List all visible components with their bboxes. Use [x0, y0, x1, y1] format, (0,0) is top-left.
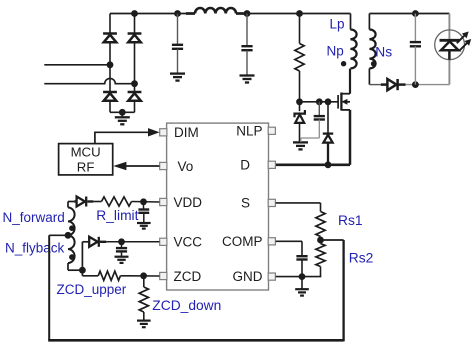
- wire GND pin to junction: [276, 276, 302, 278]
- node top rail junction at R1: [296, 10, 303, 17]
- svg-text:Rs2: Rs2: [349, 251, 374, 266]
- svg-text:ZCD: ZCD: [174, 269, 202, 284]
- wire ZCD_upper to ZCD pin: [120, 275, 159, 277]
- diode D4: [77, 197, 85, 207]
- svg-text:DIM: DIM: [174, 125, 199, 140]
- node Rs1/Rs2 junction: [317, 237, 324, 244]
- wire D6 to VCC pin: [106, 241, 159, 243]
- wire D4 to R_limit: [93, 201, 101, 203]
- node secondary bottom at C4: [412, 81, 419, 88]
- transistor Q1 nMOSFET: [337, 95, 339, 109]
- pin NLP: [268, 127, 275, 134]
- capacitor C6: [143, 202, 145, 210]
- node top rail junction at C1: [174, 10, 181, 17]
- node gate line at C3: [316, 98, 323, 105]
- zener diode DZ1: [299, 102, 301, 111]
- wire bottom rail: [48, 339, 343, 342]
- svg-text:N_flyback: N_flyback: [5, 241, 65, 256]
- svg-text:Np: Np: [327, 44, 344, 59]
- node D2 at D wire: [325, 161, 332, 168]
- wire COMP to C5: [276, 240, 302, 242]
- diode bridge bottom-right: [128, 91, 142, 94]
- node VCC line at C7: [118, 238, 125, 245]
- resistor R_limit: [102, 197, 132, 206]
- wire junction up to D6: [81, 242, 83, 270]
- ground C6: [137, 222, 151, 224]
- svg-text:N_forward: N_forward: [3, 210, 65, 225]
- svg-text:Vo: Vo: [178, 159, 194, 174]
- svg-text:COMP: COMP: [222, 234, 263, 249]
- ground ZCD_down: [137, 320, 151, 322]
- wire top rectified rail: [110, 13, 186, 15]
- capacitor C4: [414, 14, 416, 42]
- svg-text:VDD: VDD: [174, 195, 203, 210]
- ground C1: [170, 72, 185, 74]
- resistor Rs2: [320, 240, 322, 244]
- pin VDD: [160, 198, 167, 205]
- svg-text:R_limit: R_limit: [96, 208, 138, 223]
- inductor L1: [195, 8, 236, 14]
- node gate line at R1/zener: [296, 98, 303, 105]
- wire Rs2 bottom to GND line: [302, 276, 321, 278]
- capacitor C7: [121, 242, 123, 248]
- ground C7: [115, 256, 129, 258]
- ground zener: [293, 141, 308, 143]
- wire AC input line 1: [44, 64, 110, 66]
- node primary polarity dot: [341, 61, 346, 66]
- resistor R1: [299, 14, 301, 44]
- svg-text:Rs1: Rs1: [338, 213, 363, 228]
- ground GND: [301, 277, 303, 289]
- svg-text:VCC: VCC: [174, 235, 203, 250]
- op-amp U1 controller IC body: [167, 123, 269, 290]
- ground C2: [240, 74, 255, 76]
- node top rail junction at C2: [244, 10, 251, 17]
- wire right bridge column: [134, 14, 136, 113]
- wire aux bottom to junction: [68, 269, 82, 271]
- diode D3: [369, 84, 380, 86]
- wire AC input line 2 with hop over left column: [44, 78, 134, 83]
- pin VCC: [160, 238, 167, 245]
- transformer aux winding N_forward/N_flyback: [67, 202, 69, 208]
- node GND junction: [299, 273, 306, 280]
- wire C3 bottom to zener ground: [301, 137, 320, 139]
- node N_forward polarity dot: [69, 225, 75, 231]
- pin DIM: [160, 129, 167, 136]
- node AC2-right column junction: [131, 80, 138, 87]
- node secondary polarity dot: [371, 61, 376, 66]
- wire center tap to left rail: [49, 234, 68, 236]
- svg-text:ZCD_down: ZCD_down: [152, 298, 221, 313]
- svg-text:D: D: [240, 158, 250, 173]
- pin D: [268, 161, 275, 168]
- wire gate line: [300, 101, 339, 103]
- diode D6: [89, 237, 97, 247]
- svg-text:RF: RF: [77, 160, 95, 175]
- resistor ZCD_upper: [98, 271, 120, 280]
- node gate line at D2: [325, 98, 332, 105]
- MCU RF box: [59, 144, 113, 175]
- transformer primary winding Lp/Np: [350, 14, 352, 30]
- diode bridge top-right: [128, 32, 142, 35]
- diode D2: [327, 102, 329, 133]
- wire secondary top rail: [369, 13, 449, 15]
- node bridge ground junction: [119, 109, 126, 116]
- capacitor C1: [177, 14, 179, 45]
- capacitor C2: [246, 14, 248, 47]
- pin ZCD: [160, 272, 167, 279]
- svg-text:MCU: MCU: [71, 145, 101, 160]
- svg-text:NLP: NLP: [236, 123, 262, 138]
- wire MCU to DIM with arrow: [95, 132, 149, 143]
- node top rail junction at right bridge column: [131, 10, 138, 17]
- svg-text:S: S: [241, 196, 250, 211]
- node VDD line at C6: [140, 198, 147, 205]
- wire junction to ZCD_upper: [81, 270, 83, 276]
- svg-text:Ns: Ns: [375, 44, 392, 59]
- diode bridge top-left: [103, 32, 117, 35]
- pin Vo: [160, 162, 167, 169]
- wire left rail: [48, 235, 50, 340]
- node ZCD junction: [140, 272, 147, 279]
- pin COMP: [268, 238, 275, 245]
- pin GND: [268, 273, 275, 280]
- svg-text:ZCD_upper: ZCD_upper: [57, 282, 127, 297]
- wire D pin to MOSFET source: [276, 164, 350, 167]
- resistor ZCD_down: [143, 276, 145, 287]
- node AC1-left column junction: [107, 61, 114, 68]
- ground bridge: [121, 112, 123, 117]
- node N_flyback polarity dot: [69, 254, 75, 260]
- wire S pin to Rs1: [276, 202, 321, 204]
- wire thick inductor stubs: [186, 12, 195, 15]
- capacitor C3: [318, 102, 320, 116]
- wire right sense rail: [342, 240, 344, 341]
- node aux bottom junction: [79, 267, 86, 274]
- resistor Rs1: [316, 212, 325, 237]
- node secondary rail at C4: [412, 10, 419, 17]
- capacitor C5: [296, 255, 307, 257]
- node aux winding center tap: [65, 232, 72, 239]
- wire left bridge column: [109, 14, 111, 113]
- pin S: [268, 199, 275, 206]
- wire R_limit to VDD pin: [132, 201, 160, 204]
- diode bridge bottom-left: [103, 91, 117, 94]
- LED D5: [448, 14, 450, 41]
- svg-text:Lp: Lp: [330, 17, 345, 32]
- wire bridge bottom join: [110, 111, 135, 113]
- wire Vo to MCU with arrow: [126, 165, 159, 167]
- svg-text:GND: GND: [233, 269, 263, 284]
- transformer secondary winding Ns: [368, 14, 370, 30]
- wire aux top: [68, 201, 74, 203]
